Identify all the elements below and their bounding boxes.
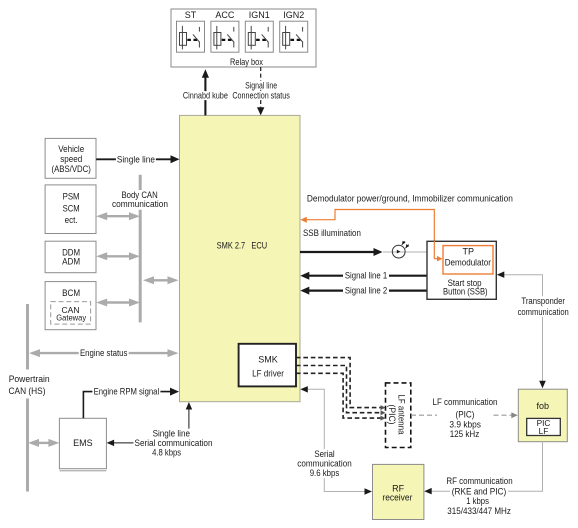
svg-text:Vehicle: Vehicle xyxy=(58,144,84,154)
svg-text:ect.: ect. xyxy=(65,215,78,225)
svg-text:4.8 kbps: 4.8 kbps xyxy=(152,448,181,458)
svg-text:BCM: BCM xyxy=(62,288,80,298)
svg-text:RF communication: RF communication xyxy=(446,476,512,486)
svg-text:Signal line: Signal line xyxy=(245,80,277,90)
svg-text:IGN1: IGN1 xyxy=(249,10,270,20)
svg-text:(PIC): (PIC) xyxy=(387,405,397,425)
svg-text:speed: speed xyxy=(60,154,82,164)
svg-text:Connection status: Connection status xyxy=(232,91,290,101)
svg-text:ACC: ACC xyxy=(215,10,235,20)
svg-text:125 kHz: 125 kHz xyxy=(450,429,480,439)
svg-text:Transponder: Transponder xyxy=(521,296,565,306)
svg-text:PSM: PSM xyxy=(63,192,80,202)
svg-text:(PIC): (PIC) xyxy=(456,409,475,419)
svg-text:(ABS/VDC): (ABS/VDC) xyxy=(52,164,91,174)
svg-text:1 kbps: 1 kbps xyxy=(466,496,489,506)
svg-text:3.9 kbps: 3.9 kbps xyxy=(449,420,481,430)
svg-text:ST: ST xyxy=(185,10,197,20)
svg-text:(RKE and PIC): (RKE and PIC) xyxy=(452,486,507,496)
svg-text:Powertrain: Powertrain xyxy=(9,374,50,384)
svg-text:communication: communication xyxy=(112,199,168,209)
svg-text:Engine status: Engine status xyxy=(80,348,128,358)
svg-text:receiver: receiver xyxy=(382,493,412,503)
svg-text:LF antenna: LF antenna xyxy=(397,395,407,435)
svg-text:SCM: SCM xyxy=(63,204,80,214)
svg-text:LF: LF xyxy=(539,426,549,436)
svg-text:LF driver: LF driver xyxy=(252,369,284,379)
svg-text:Single line: Single line xyxy=(117,154,155,164)
svg-text:communication: communication xyxy=(297,459,351,469)
svg-text:Engine RPM signal: Engine RPM signal xyxy=(94,387,160,397)
svg-text:SMK: SMK xyxy=(258,355,278,365)
svg-text:Demodulator: Demodulator xyxy=(445,258,491,268)
svg-text:Button (SSB): Button (SSB) xyxy=(443,286,488,296)
svg-text:LF communication: LF communication xyxy=(433,397,498,407)
svg-text:communication: communication xyxy=(518,307,569,317)
svg-text:Demodulator power/ground, Immo: Demodulator power/ground, Immobilizer co… xyxy=(307,193,513,203)
svg-text:Cinnabd kube: Cinnabd kube xyxy=(183,91,228,101)
svg-text:Signal line 2: Signal line 2 xyxy=(345,286,387,296)
svg-text:Relay box: Relay box xyxy=(230,57,263,67)
svg-text:ADM: ADM xyxy=(62,257,80,267)
svg-text:9.6 kbps: 9.6 kbps xyxy=(310,468,340,478)
svg-text:SSB illumination: SSB illumination xyxy=(303,228,361,238)
svg-text:Signal line 1: Signal line 1 xyxy=(345,271,387,281)
svg-text:Gateway: Gateway xyxy=(56,313,86,323)
svg-text:IGN2: IGN2 xyxy=(283,10,304,20)
svg-text:fob: fob xyxy=(537,401,550,411)
svg-text:EMS: EMS xyxy=(73,438,93,448)
svg-text:SMK 2.7 ECU: SMK 2.7 ECU xyxy=(217,241,268,251)
svg-text:TP: TP xyxy=(463,246,475,256)
svg-text:315/433/447 MHz: 315/433/447 MHz xyxy=(447,506,511,516)
svg-text:CAN (HS): CAN (HS) xyxy=(9,386,46,396)
svg-text:Serial communication: Serial communication xyxy=(135,438,213,448)
